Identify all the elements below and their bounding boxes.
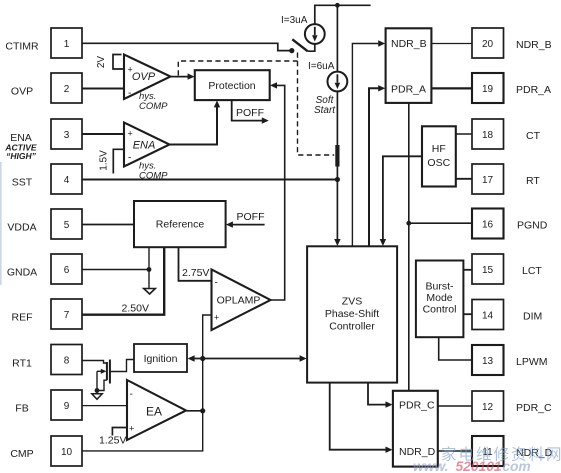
svg-text:8: 8 bbox=[64, 356, 70, 367]
wire OVP out to Protection bbox=[171, 73, 195, 79]
svg-text:ZVS: ZVS bbox=[342, 296, 362, 308]
wire switch to current source I=3uA bbox=[308, 44, 315, 51]
svg-text:9: 9 bbox=[64, 401, 70, 412]
junction top rail bbox=[335, 3, 340, 8]
ground symbol 2 bbox=[92, 391, 102, 400]
comparator OVP bbox=[124, 55, 171, 113]
svg-text:-: - bbox=[128, 153, 131, 164]
ground symbol bbox=[144, 289, 156, 295]
svg-text:EA: EA bbox=[146, 405, 162, 419]
svg-text:520101: 520101 bbox=[456, 459, 502, 473]
POFF input to Reference bbox=[226, 211, 265, 228]
wire PDR_A to pin19 bbox=[431, 87, 472, 89]
svg-text:+: + bbox=[129, 424, 134, 434]
pin 8 RT1 bbox=[12, 345, 82, 375]
current source I=6uA bbox=[308, 61, 347, 91]
svg-text:+: + bbox=[214, 313, 219, 323]
junction GNDA bbox=[147, 267, 152, 272]
wire ZVS to NDR_D bbox=[330, 383, 393, 453]
block Protection bbox=[195, 70, 270, 100]
pin 2 OVP bbox=[11, 73, 82, 103]
current source I=3uA bbox=[281, 15, 325, 44]
pin 9 FB bbox=[15, 390, 82, 420]
block ZVS Phase-Shift Controller bbox=[307, 246, 397, 382]
wire 2.50V REF pin7 bbox=[82, 247, 164, 315]
svg-text:1.5V: 1.5V bbox=[99, 150, 110, 171]
pin 3 ENA bbox=[51, 119, 82, 149]
block HF OSC bbox=[422, 126, 456, 186]
pin 5 VDDA bbox=[7, 209, 82, 239]
switch blade bbox=[292, 39, 307, 51]
wire to pin16 PGND bbox=[409, 222, 472, 224]
svg-text:ENA: ENA bbox=[133, 140, 156, 152]
svg-text:6: 6 bbox=[64, 265, 70, 276]
svg-text:OSC: OSC bbox=[427, 157, 450, 169]
svg-text:SST: SST bbox=[12, 177, 33, 189]
wire Burst to pin13 LPWM bbox=[439, 337, 472, 360]
svg-text:I=6uA: I=6uA bbox=[308, 61, 335, 72]
svg-text:2V: 2V bbox=[96, 56, 107, 69]
2V reference bbox=[96, 55, 125, 70]
svg-text:1.25V: 1.25V bbox=[99, 435, 126, 447]
wire pin8 RT1 to transistor bbox=[82, 361, 107, 364]
wire ZVS to PDR_C bbox=[368, 383, 393, 408]
svg-text:FB: FB bbox=[15, 403, 28, 415]
svg-text:COMP: COMP bbox=[139, 101, 168, 112]
svg-text:13: 13 bbox=[482, 356, 494, 367]
svg-text:PDR_A: PDR_A bbox=[391, 83, 426, 95]
pin 10 CMP bbox=[10, 436, 82, 466]
wire pin1 CTIMR to switch bbox=[82, 43, 290, 50]
label ENA ACTIVE HIGH bbox=[4, 132, 37, 161]
pin 16 PGND bbox=[472, 209, 548, 239]
wire HF OSC to pin18 CT bbox=[456, 133, 472, 135]
POFF output bbox=[232, 100, 269, 124]
svg-text:LCT: LCT bbox=[522, 265, 542, 277]
wire Burst to pin15 LCT bbox=[463, 269, 472, 271]
left edge artifact bbox=[0, 162, 2, 285]
svg-text:Phase-Shift: Phase-Shift bbox=[325, 308, 379, 320]
wire I=6uA to SST node bbox=[336, 91, 338, 145]
svg-text:www.: www. bbox=[413, 459, 449, 473]
wire PGND rail bbox=[408, 103, 410, 391]
wire ZVS to PDR_A bbox=[369, 85, 385, 246]
wire pin2 to OVP bbox=[82, 88, 124, 90]
svg-text:Control: Control bbox=[423, 304, 457, 316]
svg-text:DIM: DIM bbox=[523, 311, 542, 323]
svg-text:PDR_C: PDR_C bbox=[399, 399, 435, 411]
wire gate to Ignition bbox=[110, 360, 134, 372]
wire pin3 to ENA bbox=[82, 133, 124, 135]
svg-text:1: 1 bbox=[64, 39, 70, 50]
svg-text:Start: Start bbox=[314, 105, 336, 116]
svg-text:PDR_C: PDR_C bbox=[516, 402, 552, 414]
wire HF OSC to ZVS bbox=[380, 156, 422, 246]
op-amp OPLAMP bbox=[212, 270, 271, 331]
pin 11 NDR_D bbox=[472, 436, 553, 466]
svg-text:“HIGH”: “HIGH” bbox=[6, 151, 37, 161]
svg-text:3: 3 bbox=[64, 130, 70, 141]
pin 7 REF bbox=[12, 299, 83, 329]
svg-text:OVP: OVP bbox=[11, 86, 33, 98]
svg-text:Protection: Protection bbox=[208, 80, 255, 92]
svg-text:NDR_B: NDR_B bbox=[391, 38, 427, 50]
svg-text:Reference: Reference bbox=[156, 219, 205, 231]
svg-text:POFF: POFF bbox=[236, 107, 264, 119]
svg-text:2.75V: 2.75V bbox=[182, 267, 209, 279]
1.5V reference bbox=[99, 149, 125, 173]
svg-text:GNDA: GNDA bbox=[7, 267, 37, 279]
svg-text:OPLAMP: OPLAMP bbox=[217, 295, 261, 307]
svg-text:CMP: CMP bbox=[10, 448, 33, 460]
block Reference bbox=[134, 201, 226, 247]
wire CMP net bbox=[82, 315, 212, 451]
block NDR_B PDR_A bbox=[386, 28, 432, 103]
wire pin9 FB to EA bbox=[82, 405, 127, 407]
svg-text:I=3uA: I=3uA bbox=[281, 15, 308, 26]
svg-text:Ignition: Ignition bbox=[144, 353, 178, 365]
wire PDR_C to pin12 bbox=[438, 405, 472, 407]
label Soft Start bbox=[314, 95, 336, 116]
pin 4 SST bbox=[12, 164, 82, 194]
block Burst-Mode Control bbox=[416, 261, 464, 338]
wire Ignition ZVS bbox=[188, 355, 307, 361]
svg-text:15: 15 bbox=[482, 265, 494, 276]
svg-text:4: 4 bbox=[64, 175, 70, 186]
junction transistor ground bbox=[95, 388, 100, 393]
pin 15 LCT bbox=[472, 254, 542, 284]
block Ignition bbox=[134, 344, 187, 372]
wire SST pin4 bbox=[82, 179, 337, 181]
svg-text:Controller: Controller bbox=[329, 321, 375, 333]
svg-text:7: 7 bbox=[64, 310, 70, 321]
svg-text:LPWM: LPWM bbox=[516, 356, 548, 368]
wire Burst to pin14 DIM bbox=[463, 313, 472, 315]
comparator ENA bbox=[124, 123, 170, 182]
svg-text:HF: HF bbox=[432, 143, 446, 155]
svg-text:12: 12 bbox=[482, 402, 494, 413]
svg-text:PDR_A: PDR_A bbox=[516, 84, 551, 96]
svg-text:Burst-: Burst- bbox=[425, 281, 454, 293]
svg-text:10: 10 bbox=[61, 447, 73, 458]
svg-text:料: 料 bbox=[529, 446, 545, 464]
wire rail to I=6uA bbox=[336, 5, 338, 71]
svg-text:RT: RT bbox=[526, 175, 540, 187]
pin 1 CTIMR bbox=[5, 28, 82, 58]
wire ZVS to NDR_B bbox=[352, 40, 385, 246]
svg-text:POFF: POFF bbox=[237, 211, 265, 223]
wire NDR_D to pin11 bbox=[438, 450, 472, 452]
wire 2.75V to OPLAMP bbox=[179, 247, 212, 281]
wire pin5 VDDA to Reference bbox=[82, 224, 134, 226]
junction Ignition line bbox=[200, 356, 205, 361]
svg-text:-: - bbox=[215, 278, 218, 289]
svg-text:NDR_B: NDR_B bbox=[516, 39, 552, 51]
wire EA output bbox=[186, 410, 203, 412]
svg-text:16: 16 bbox=[482, 220, 494, 231]
dashed control from OVP bbox=[178, 53, 334, 156]
svg-text:5: 5 bbox=[64, 220, 70, 231]
svg-text:VDDA: VDDA bbox=[7, 222, 36, 234]
error amp EA bbox=[127, 380, 186, 440]
svg-text:OVP: OVP bbox=[132, 71, 156, 83]
junction SST bbox=[335, 177, 340, 182]
svg-text:20: 20 bbox=[482, 39, 494, 50]
1.25V reference bbox=[99, 428, 127, 447]
pin 18 CT bbox=[472, 119, 541, 149]
svg-text:+: + bbox=[128, 129, 133, 139]
junction EA out bbox=[200, 408, 205, 413]
pin 19 PDR_A bbox=[472, 73, 551, 103]
pin 12 PDR_C bbox=[472, 391, 552, 421]
svg-text:RT1: RT1 bbox=[12, 358, 32, 370]
wire NDR_B to pin20 bbox=[431, 43, 472, 45]
svg-text:2.50V: 2.50V bbox=[122, 303, 149, 315]
svg-text:NDR_D: NDR_D bbox=[399, 446, 436, 458]
wire HF OSC to pin17 RT bbox=[456, 178, 472, 180]
svg-text:Mode: Mode bbox=[426, 292, 452, 304]
svg-text:-: - bbox=[128, 88, 131, 99]
svg-text:2: 2 bbox=[64, 84, 70, 95]
wire Reference to ground bbox=[148, 247, 150, 288]
svg-text:14: 14 bbox=[482, 311, 494, 322]
block PDR_C NDR_D bbox=[393, 391, 438, 467]
transistor Q1 bbox=[97, 360, 110, 391]
svg-text:CTIMR: CTIMR bbox=[5, 40, 39, 52]
svg-text:19: 19 bbox=[482, 84, 494, 95]
wire bar to ZVS bbox=[334, 167, 340, 247]
watermark bbox=[413, 446, 561, 473]
svg-text:18: 18 bbox=[482, 130, 494, 141]
svg-text:17: 17 bbox=[482, 175, 494, 186]
top supply rail bbox=[315, 5, 371, 24]
wire pin6 GNDA bbox=[82, 269, 149, 271]
svg-text:PGND: PGND bbox=[517, 220, 548, 232]
wire ENA out to Protection bbox=[170, 100, 221, 144]
pin 6 GNDA bbox=[7, 254, 82, 284]
switch pivot node bbox=[289, 48, 294, 53]
svg-text:网: 网 bbox=[546, 447, 561, 464]
svg-text:REF: REF bbox=[12, 312, 33, 324]
pin 17 RT bbox=[472, 164, 540, 194]
wire OPLAMP out to Protection bbox=[270, 82, 285, 300]
pin 20 NDR_B bbox=[472, 28, 552, 58]
junction PGND bbox=[406, 221, 411, 226]
svg-text:.com: .com bbox=[499, 459, 531, 473]
discharge switch bar bbox=[335, 145, 339, 167]
pin 13 LPWM bbox=[472, 345, 548, 375]
svg-text:CT: CT bbox=[526, 130, 541, 142]
pin 14 DIM bbox=[472, 300, 542, 330]
svg-text:-: - bbox=[130, 389, 133, 400]
